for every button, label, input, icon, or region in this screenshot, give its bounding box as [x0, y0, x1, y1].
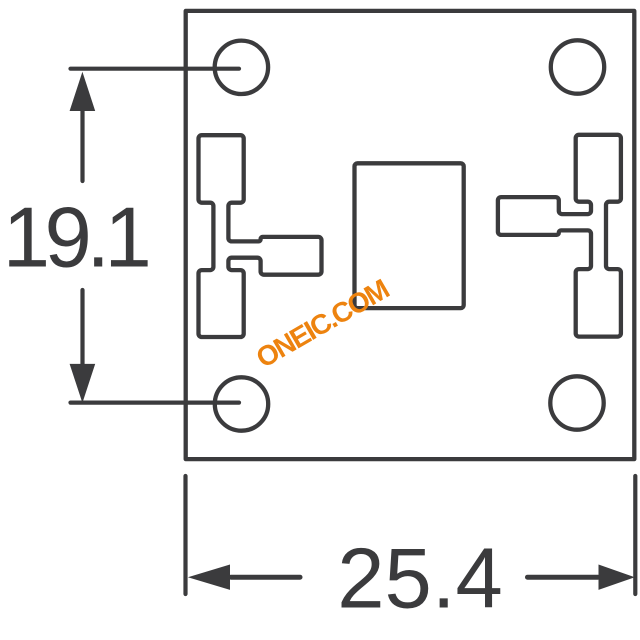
svg-text:19.1: 19.1: [3, 191, 149, 286]
svg-text:25.4: 25.4: [337, 531, 502, 626]
